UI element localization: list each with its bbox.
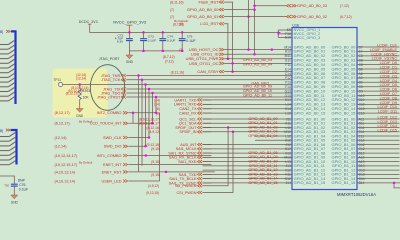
svg-text:(8,12,15): (8,12,15): [66, 92, 79, 96]
net label LCDIF_D13: [378, 120, 397, 124]
svg-text:(4,10,12,14): (4,10,12,14): [55, 170, 76, 174]
wire SWD_CLK: [128, 137, 149, 139]
wire LCDIF row 6: [357, 72, 400, 74]
highlight region around TP11/R203: [53, 69, 108, 118]
svg-text:0.1UF: 0.1UF: [167, 39, 176, 43]
ref (12,14) a: [76, 73, 86, 77]
svg-text:USB_OTG1_OC: USB_OTG1_OC: [189, 61, 219, 66]
svg-text:(2): (2): [179, 48, 183, 52]
wire cap ground rail: [129, 50, 182, 52]
vertical trunk x145.5: [145, 85, 147, 147]
wire USB_OTG1_PWR: [224, 58, 292, 60]
bus label fragment 2: [0, 129, 3, 133]
wire row AD_B1_10: [203, 161, 293, 163]
part number MIMXRT1062DVL6A: [337, 192, 376, 197]
wire SAI1_RXD stub: [203, 161, 212, 163]
wire TP11: [63, 84, 292, 86]
wire bus2 entry 0: [0, 132, 16, 136]
svg-text:LCDIF_D2: LCDIF_D2: [380, 70, 397, 74]
pin E9: [287, 28, 291, 32]
pin name GPIO_AD_B1_11: [294, 163, 326, 168]
wire INT2_COMBO: [128, 112, 156, 114]
svg-text:SAI1_RXD: SAI1_RXD: [178, 160, 197, 164]
svg-text:INT2_COMBO: INT2_COMBO: [97, 111, 122, 115]
wire bus2 entry 2: [0, 142, 16, 146]
wire SPDIF_OUT stub: [203, 127, 212, 129]
net label AUD_INT: [146, 143, 202, 147]
svg-text:(6): (6): [179, 22, 183, 26]
wire bus2 entry 1: [0, 137, 16, 141]
svg-text:DCDC_3V3: DCDC_3V3: [79, 20, 98, 24]
net label GPIO_AD_B0_04 wire: [243, 63, 272, 67]
pin B11 right: [359, 122, 365, 126]
net label LCDIF_D5: [380, 83, 397, 87]
svg-text:(6,7,12): (6,7,12): [340, 15, 352, 19]
svg-text:GND: GND: [126, 60, 134, 64]
wire right row B1_02: [357, 127, 400, 129]
pin name GPIO_AD_B1_00: [294, 116, 326, 121]
offpage flag GPIO_AD_B0_03: [287, 4, 349, 8]
pin A12 right: [359, 156, 365, 160]
pin A10 right: [359, 94, 365, 98]
label C73: [148, 34, 154, 38]
pin name GPIO_B1_08: [332, 150, 357, 155]
pin E12 right: [359, 139, 365, 143]
pin name GPIO_AD_B1_10: [294, 159, 326, 164]
svg-text:(9,15): (9,15): [151, 160, 160, 164]
pin name GPIO_AD_B1_12: [294, 167, 326, 172]
wire row AD_B1_09: [203, 156, 293, 158]
pin name GPIO_AD_B0_09: [294, 84, 326, 89]
pin H11 left: [285, 173, 291, 177]
pin J14 left: [285, 181, 290, 185]
ref (12,14) b: [76, 76, 86, 80]
svg-text:CAN2_TX: CAN2_TX: [179, 107, 197, 111]
pin name NVCC_GPIO_3: [294, 36, 321, 40]
junction SD_PWREN: [227, 126, 230, 128]
pin name GPIO_AD_B0_07: [294, 75, 326, 80]
wire right row B1_13: [357, 173, 400, 175]
pin name GPIO_AD_B1_08: [294, 150, 326, 155]
pin name GPIO_B1_00: [332, 116, 357, 121]
net label INT1_COMBO: [55, 154, 128, 158]
svg-text:(4,9,12): (4,9,12): [148, 184, 159, 188]
net label USER_LED: [55, 179, 128, 183]
svg-text:M11: M11: [285, 54, 291, 58]
pin name GPIO_B0_13: [332, 102, 357, 107]
svg-text:LCDIF_D1: LCDIF_D1: [380, 66, 397, 70]
wire USB_OTG1_OC: [224, 62, 292, 64]
capacitor C73: [140, 32, 147, 51]
ref (8,7,12) b: [163, 55, 175, 59]
pin K10 left: [285, 147, 291, 151]
wire bus2 entry 5: [0, 156, 16, 160]
pin L14 left: [285, 103, 291, 107]
wire right row B1_06: [357, 144, 400, 146]
svg-text:GPIO_B0_15: GPIO_B0_15: [332, 110, 357, 115]
pin name GPIO_AD_B0_02: [294, 53, 326, 58]
net label UART1_RXD: [154, 103, 202, 107]
pin D8 right: [359, 59, 363, 63]
net label SWD_CLK: [55, 136, 128, 140]
svg-text:(7): (7): [170, 8, 174, 12]
wire row AD_B1_12: [203, 169, 293, 171]
pin name GPIO_B0_11: [332, 93, 356, 98]
pin H13 left: [285, 151, 291, 155]
wire right row B1_07: [357, 148, 400, 150]
svg-text:(14): (14): [154, 103, 160, 107]
net label LCDIF_D8: [380, 96, 397, 100]
wire right row B1_12: [357, 169, 400, 171]
wire DCDC to rail: [90, 26, 281, 33]
net label JTAG_TCK: [101, 78, 126, 82]
pin name GPIO_AD_B1_02: [294, 125, 326, 130]
net label SAI1_RX_BCLK: [169, 156, 202, 160]
svg-text:U1E: U1E: [292, 23, 300, 27]
wire SWD_DIO: [128, 145, 145, 147]
junction SWD_DIO: [144, 145, 147, 148]
junction USB_OTG1_ID: [253, 53, 256, 56]
wire right row B1_09: [357, 156, 400, 158]
pin name GPIO_B0_07: [332, 75, 357, 80]
pin A9 right: [359, 76, 363, 80]
junction CSI_PWDN: [232, 131, 235, 134]
svg-text:GPIO_AD_B0_04: GPIO_AD_B0_04: [243, 63, 272, 67]
pin name GPIO_AD_B0_08: [294, 80, 326, 85]
junction ENET_RST: [165, 171, 168, 174]
wire LCDIF row 1: [357, 50, 400, 52]
wire LCDIF row 2: [357, 55, 400, 57]
pin C12 right: [359, 147, 365, 151]
wire SAI1_MCLK stub: [203, 148, 212, 150]
pin name GPIO_B0_02: [332, 53, 357, 58]
svg-text:SWD_CLK: SWD_CLK: [103, 136, 122, 140]
label DNP: [18, 178, 26, 182]
wire USB_HOST_OC: [224, 49, 292, 51]
ground below C76: [11, 195, 19, 204]
junction gnd rail C73: [142, 50, 145, 53]
svg-text:(7): (7): [170, 15, 174, 19]
svg-text:UART1_RXD: UART1_RXD: [174, 103, 197, 107]
pin G11 left: [285, 59, 291, 63]
svg-text:LCDIF_D0: LCDIF_D0: [380, 61, 397, 65]
net label GPIO_AD_B1_08 wire: [248, 151, 277, 155]
pin name GPIO_AD_B1_06: [294, 142, 326, 147]
svg-text:GPIO_B1_15: GPIO_B1_15: [332, 180, 357, 185]
wire LCDIF row 10: [357, 90, 400, 92]
wire bus1 entry 9: [0, 83, 15, 87]
wire LCD_RST: [224, 24, 228, 59]
svg-text:TP11: TP11: [53, 78, 61, 82]
svg-text:LCDIF_D8: LCDIF_D8: [380, 96, 397, 100]
net label LCDIF_D3: [380, 74, 397, 78]
wire SAI1_TX_SYNC stub: [203, 182, 212, 184]
junction USB_HOST_OC: [247, 48, 250, 51]
wire row AD_B0_13: [203, 103, 293, 105]
IC U1E outline: [292, 28, 357, 190]
ref (8,11,16) CAN: [171, 71, 184, 75]
pin name GPIO_AD_B0_00: [294, 44, 326, 49]
pin H10 left: [285, 50, 291, 54]
svg-text:GPIO_AD_B0_11: GPIO_AD_B0_11: [243, 93, 272, 97]
net label SAI1_RXD: [151, 160, 202, 164]
vertical trunk x133: [132, 113, 134, 124]
svg-text:By Default: By Default: [79, 161, 93, 165]
svg-text:R203: R203: [82, 89, 90, 93]
svg-text:GPIO_AD_B0_00: GPIO_AD_B0_00: [187, 7, 219, 12]
pin H14 left: [285, 107, 291, 111]
wire bus1 entry 2: [0, 50, 15, 54]
wire bus1 entry 3: [0, 54, 15, 58]
svg-text:CAN2_RX: CAN2_RX: [179, 112, 197, 116]
svg-text:MIMXRT1062DVL6A: MIMXRT1062DVL6A: [337, 192, 376, 197]
wire right row B1_05: [357, 139, 400, 141]
pin name GPIO_B1_03: [332, 129, 357, 134]
wire SAI1_TX_BCLK stub: [203, 178, 212, 180]
label C74: [167, 34, 173, 38]
pin C10 right: [359, 103, 365, 107]
pin G12 left: [285, 177, 291, 181]
label C75: [187, 34, 193, 38]
svg-text:GPIO_AD_B0_03: GPIO_AD_B0_03: [297, 4, 327, 8]
svg-text:JTAG_TCK: JTAG_TCK: [101, 78, 121, 82]
pin E11 right: [359, 134, 365, 138]
wire QC1_SDA stub: [203, 122, 212, 124]
net label USB_OTG1_PWR: [186, 56, 224, 61]
pin name GPIO_AD_B1_04: [294, 133, 326, 138]
pin K12 left: [285, 139, 291, 143]
pin B14 right: [359, 181, 365, 185]
pin name GPIO_B0_10: [332, 88, 357, 93]
svg-text:NVCC_GPIO_3V3: NVCC_GPIO_3V3: [113, 19, 147, 24]
net label ENET_RST: [55, 170, 128, 174]
net label LCDIF_D0: [380, 61, 397, 65]
pin name GPIO_B1_12: [332, 167, 357, 172]
svg-text:ENET_INT: ENET_INT: [103, 163, 122, 167]
bus entry chevron: [6, 30, 10, 33]
net label GAS_REQ: [251, 81, 269, 85]
svg-text:SD_PWREN: SD_PWREN: [175, 184, 197, 188]
net label LCDIF_D7: [380, 92, 397, 96]
svg-text:(8): (8): [156, 112, 160, 116]
svg-text:LCDIF_CLK: LCDIF_CLK: [377, 44, 397, 48]
wire row AD_B1_14: [203, 178, 293, 180]
pin name GPIO_B1_02: [332, 125, 357, 130]
junction Flash_RST can: [231, 70, 234, 73]
net label LCD_RST: [179, 21, 224, 26]
pin C13 right: [359, 168, 365, 172]
svg-text:C75: C75: [187, 34, 193, 38]
pin name GPIO_AD_B0_14: [294, 106, 326, 111]
svg-text:LCDIF_D15: LCDIF_D15: [378, 128, 397, 132]
pin name GPIO_AD_B0_04: [294, 62, 326, 67]
vertical trunk x159.5: [159, 113, 161, 181]
wire row AD_B0_12: [203, 99, 293, 101]
svg-text:LCDIF_D7: LCDIF_D7: [380, 92, 397, 96]
pin F13 left: [285, 81, 291, 85]
wire SAI1_TXD stub: [203, 173, 212, 175]
svg-text:(7,12): (7,12): [340, 4, 349, 8]
pin J13 left: [285, 164, 290, 168]
net label INT2_COMBO: [55, 111, 128, 115]
pin name GPIO_B1_10: [332, 159, 357, 164]
junction LCD_TOUCH: [151, 122, 154, 125]
wire USB_OTG1_ID: [224, 53, 292, 55]
svg-text:(9,15): (9,15): [151, 147, 160, 151]
svg-text:B]: B]: [0, 30, 3, 34]
junction trunk254 top: [253, 4, 256, 7]
wire LCDIF row 14: [357, 108, 400, 110]
vertical trunk x149: [148, 89, 150, 138]
wire row AD_B1_01: [203, 122, 293, 124]
svg-text:GPIO_AD_B1_15: GPIO_AD_B1_15: [294, 180, 326, 185]
svg-text:ENET_RST: ENET_RST: [102, 170, 123, 174]
net label GPIO_AD_B1_04 wire: [248, 134, 277, 138]
wire right row B1_03: [357, 131, 400, 133]
pin name GPIO_B1_01: [332, 121, 357, 126]
value 4.7UF: [115, 37, 124, 41]
wire UART1_RXD stub: [203, 103, 212, 105]
wire bus1 entry 1: [0, 45, 15, 49]
pin F10: [285, 32, 291, 36]
svg-text:INT1_COMBO: INT1_COMBO: [97, 154, 122, 158]
wire row AD_B1_06: [203, 144, 293, 146]
pin name GPIO_AD_B1_09: [294, 155, 326, 160]
pin D12 right: [359, 143, 365, 147]
net label LCDIF_D2: [380, 70, 397, 74]
pin name GPIO_AD_B0_01: [294, 49, 326, 54]
svg-text:T50: T50: [4, 184, 9, 188]
svg-text:(9,12,15): (9,12,15): [146, 191, 159, 195]
net label GPIO_AD_B0_09 wire: [243, 85, 272, 89]
wire LCD_TOUCH_INT: [128, 122, 152, 124]
svg-text:GPIO_AD_B0_03: GPIO_AD_B0_03: [243, 58, 272, 62]
pin name GPIO_B1_09: [332, 155, 357, 160]
wire LCDIF row 13: [357, 103, 400, 105]
wire bus1 entry 10: [0, 87, 15, 91]
wire ENET_RST: [128, 171, 214, 173]
vertical trunk x152.5: [152, 93, 154, 123]
testpoint TP11 label: [53, 78, 61, 82]
pin L12 left: [285, 134, 291, 138]
wire JTAG_nTRST: [126, 96, 292, 98]
svg-text:NVCC_GPIO_3: NVCC_GPIO_3: [294, 36, 321, 40]
wire LCDIF row 12: [357, 99, 400, 101]
wire row AD_B1_08: [203, 152, 293, 154]
pin name GPIO_AD_B0_10: [294, 88, 326, 93]
pin M12 left: [284, 130, 291, 134]
svg-text:LCD_RST: LCD_RST: [200, 21, 219, 26]
wire LCDIF row 11: [357, 95, 400, 97]
pin name GPIO_AD_B1_03: [294, 129, 326, 134]
svg-text:(4,10,12,14): (4,10,12,14): [55, 179, 76, 183]
wire CSI_PWDN: [203, 132, 234, 193]
net label GPIO_AD_B1_01 wire: [248, 121, 277, 125]
pin name GPIO_AD_B1_01: [294, 121, 326, 126]
svg-text:(9,15): (9,15): [151, 173, 160, 177]
wire bus2 entry 3: [0, 146, 16, 150]
wire row AD_B0_14: [203, 108, 293, 110]
pin F14 left: [285, 85, 291, 89]
net label LCDIF_ENABLE: [370, 48, 398, 52]
wire LCDIF row 4: [357, 64, 400, 66]
ref (10,12,14): [68, 89, 83, 93]
pin name GPIO_B0_12: [332, 97, 357, 102]
svg-text:USER_LED: USER_LED: [101, 179, 121, 183]
svg-text:(12,14): (12,14): [55, 136, 68, 140]
ground R203: [76, 109, 84, 118]
wire bus1 entry 6: [0, 68, 15, 72]
wire AUD_INT stub: [203, 144, 212, 146]
wire bus1 entry 5: [0, 64, 15, 68]
net label SPDIF_IN: [148, 130, 202, 134]
pin G13 left: [285, 89, 291, 93]
pin M11 left: [285, 54, 291, 58]
wire JTAG_TDO: [126, 92, 292, 94]
wire USER_LED: [128, 180, 159, 182]
svg-text:F13: F13: [285, 81, 291, 85]
net label JTAG_TMS: [101, 74, 126, 78]
svg-text:Flash_RST: Flash_RST: [198, 0, 219, 5]
wire bus2 entry 6: [0, 160, 16, 164]
svg-text:UART1_TXD: UART1_TXD: [174, 98, 196, 102]
net label QC1_SCL: [139, 117, 202, 121]
svg-text:LCDIF_D6: LCDIF_D6: [380, 88, 397, 92]
wire bus1 entry 8: [0, 78, 15, 82]
power flag NVCC_GPIO_3V3: [127, 25, 133, 32]
svg-text:F14: F14: [285, 85, 291, 89]
wire GPIO_AD_B0_01: [224, 16, 286, 18]
wire CAN_STBY: [224, 71, 292, 73]
wire row AD_B1_05: [255, 139, 292, 141]
net label LCDIF_D11: [378, 110, 397, 114]
svg-text:F12: F12: [285, 76, 291, 80]
selection ellipse JTAG: [90, 65, 124, 111]
pin J12 left: [285, 143, 290, 147]
label R203: [82, 89, 90, 93]
net label LCDIF_D14: [378, 124, 397, 128]
pin D7 right: [359, 45, 363, 49]
wire SAI1_RX_SYNC stub: [203, 152, 212, 154]
wire right row B1_11: [357, 165, 400, 167]
pin name GPIO_AD_B1_13: [294, 172, 326, 177]
svg-text:LCDIF_HSYNC: LCDIF_HSYNC: [371, 52, 397, 56]
svg-text:G10: G10: [285, 94, 291, 98]
wire SPDIF_IN stub: [203, 131, 212, 133]
junction rail C74: [162, 31, 165, 34]
net label USB_OTG1_OC: [189, 61, 224, 66]
pin D11 right: [359, 130, 365, 134]
pin K11 left: [285, 122, 291, 126]
pin M14 left: [284, 45, 291, 49]
svg-text:GPIO_AD_B1_04: GPIO_AD_B1_04: [248, 134, 277, 138]
pin C9 right: [359, 85, 363, 89]
pin E10: [285, 35, 291, 39]
power label DCDC_3V3: [79, 20, 98, 24]
svg-text:(8,7,12): (8,7,12): [163, 55, 175, 59]
net label Flash_RST: [198, 0, 223, 5]
label C76: [19, 183, 25, 187]
bus GPIO bundle 1: [11, 31, 16, 104]
pin D9 right: [359, 89, 363, 93]
pin name GPIO_B1_07: [332, 146, 357, 151]
svg-text:GPIO_AD_B0_15: GPIO_AD_B0_15: [294, 110, 326, 115]
wire SAI1_RX_BCLK stub: [203, 156, 212, 158]
wire right row B1_15 dogleg: [357, 183, 400, 188]
pin C14 left: [285, 72, 291, 76]
net label LCDIF_D6: [380, 88, 397, 92]
pin name GPIO_B0_14: [332, 106, 357, 111]
